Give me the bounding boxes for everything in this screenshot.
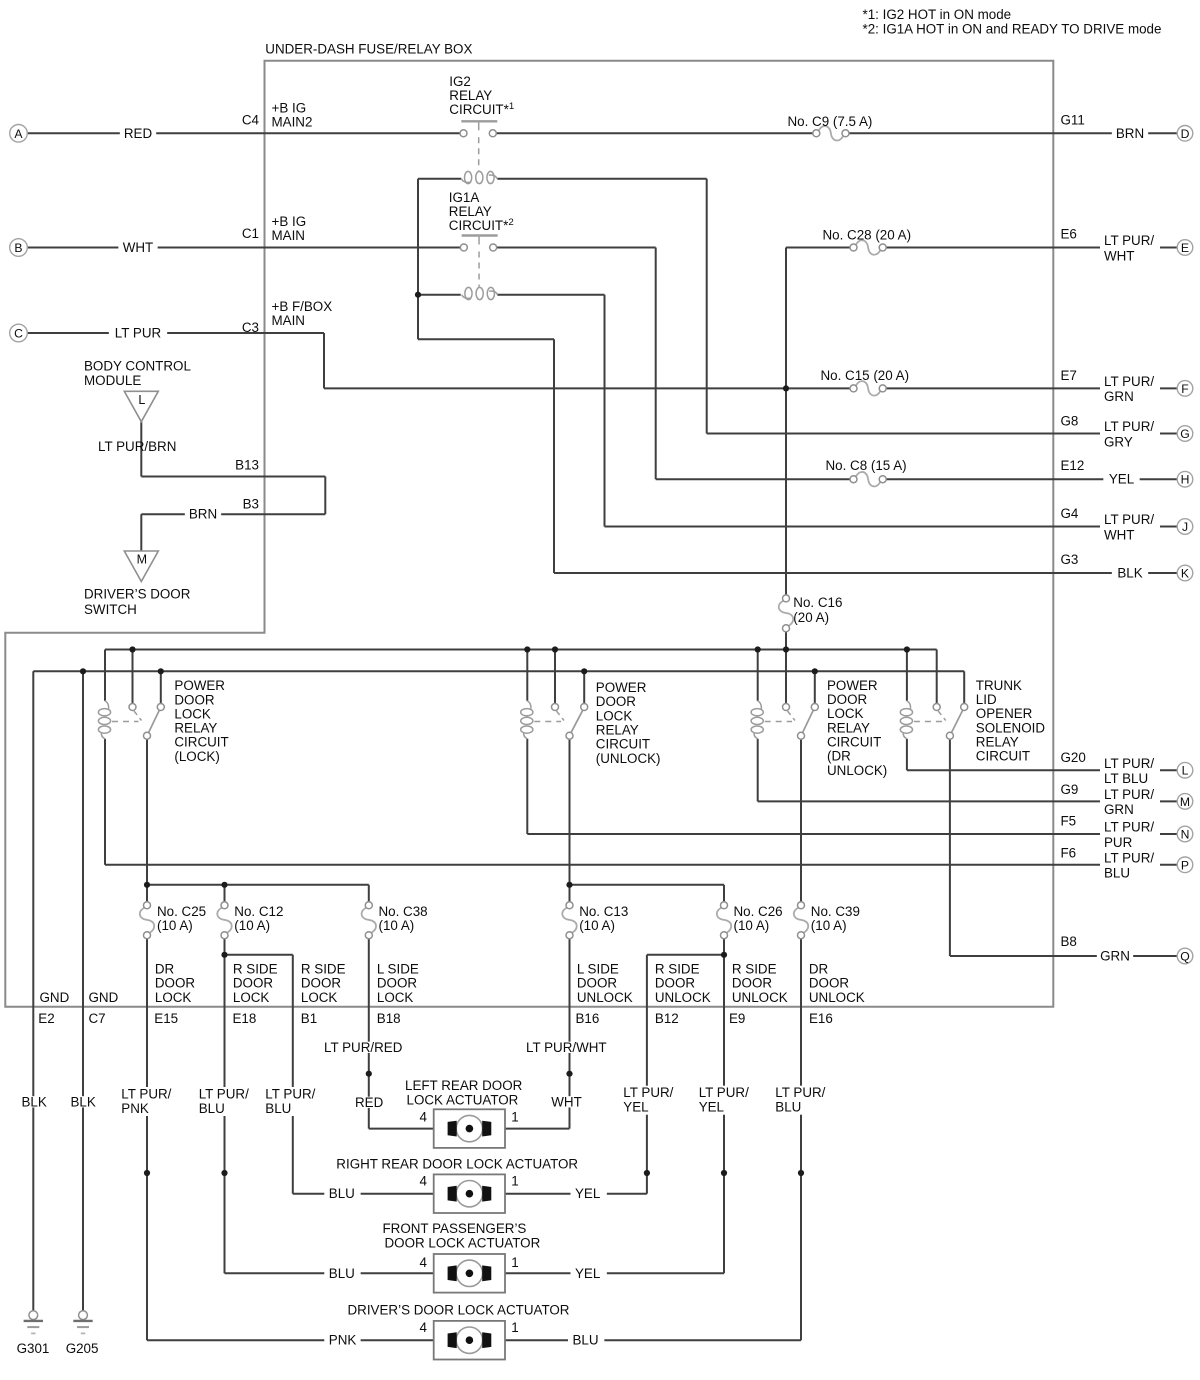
svg-text:BLU: BLU — [199, 1101, 225, 1116]
svg-text:No. C38: No. C38 — [379, 904, 428, 919]
svg-text:LT PUR/: LT PUR/ — [265, 1087, 315, 1102]
svg-text:UNDER-DASH FUSE/RELAY BOX: UNDER-DASH FUSE/RELAY BOX — [265, 42, 472, 57]
svg-text:(10 A): (10 A) — [157, 918, 193, 933]
svg-text:BLU: BLU — [329, 1186, 355, 1201]
svg-text:MAIN2: MAIN2 — [272, 115, 313, 130]
svg-text:TRUNK: TRUNK — [976, 678, 1022, 693]
svg-text:E12: E12 — [1061, 458, 1085, 473]
svg-text:RELAY: RELAY — [827, 720, 870, 735]
svg-text:PUR: PUR — [1104, 835, 1133, 850]
svg-text:C1: C1 — [242, 226, 259, 241]
svg-text:DOOR: DOOR — [155, 976, 196, 991]
svg-text:BLU: BLU — [265, 1101, 291, 1116]
svg-text:DR: DR — [809, 962, 829, 977]
svg-text:LT PUR/: LT PUR/ — [1104, 787, 1154, 802]
svg-text:M: M — [1180, 795, 1190, 809]
svg-text:No. C12: No. C12 — [234, 904, 283, 919]
svg-text:UNLOCK: UNLOCK — [577, 990, 633, 1005]
svg-text:*2: IG1A HOT in ON and READY T: *2: IG1A HOT in ON and READY TO DRIVE mo… — [863, 22, 1162, 37]
svg-text:No. C15 (20 A): No. C15 (20 A) — [821, 368, 910, 383]
svg-text:L SIDE: L SIDE — [377, 962, 419, 977]
svg-text:P: P — [1181, 858, 1189, 872]
svg-text:DOOR: DOOR — [233, 976, 274, 991]
svg-text:CIRCUIT: CIRCUIT — [596, 737, 650, 752]
svg-text:LOCK: LOCK — [827, 706, 864, 721]
svg-text:F6: F6 — [1061, 846, 1077, 861]
svg-text:POWER: POWER — [827, 678, 878, 693]
svg-text:RELAY: RELAY — [449, 204, 492, 219]
svg-text:E6: E6 — [1061, 227, 1077, 242]
svg-text:IG1A: IG1A — [449, 190, 480, 205]
svg-text:4: 4 — [420, 1255, 428, 1270]
svg-text:YEL: YEL — [575, 1186, 600, 1201]
svg-text:LOCK: LOCK — [233, 990, 270, 1005]
svg-text:LOCK: LOCK — [155, 990, 192, 1005]
svg-text:WHT: WHT — [123, 240, 154, 255]
svg-text:RED: RED — [355, 1095, 384, 1110]
svg-text:BRN: BRN — [1116, 126, 1144, 141]
svg-text:(UNLOCK): (UNLOCK) — [596, 751, 661, 766]
svg-text:+B F/BOX: +B F/BOX — [272, 299, 333, 314]
svg-text:POWER: POWER — [596, 680, 647, 695]
svg-text:POWER: POWER — [174, 678, 225, 693]
svg-text:BODY CONTROL: BODY CONTROL — [84, 359, 191, 374]
svg-text:No. C16: No. C16 — [793, 595, 842, 610]
svg-text:MODULE: MODULE — [84, 373, 141, 388]
svg-text:BLK: BLK — [1117, 566, 1142, 581]
svg-text:N: N — [1181, 828, 1190, 842]
svg-text:DOOR LOCK ACTUATOR: DOOR LOCK ACTUATOR — [385, 1235, 541, 1250]
svg-text:(10 A): (10 A) — [379, 918, 415, 933]
svg-text:(10 A): (10 A) — [234, 918, 270, 933]
svg-text:BRN: BRN — [189, 506, 217, 521]
svg-text:DOOR: DOOR — [655, 976, 696, 991]
svg-text:YEL: YEL — [623, 1100, 648, 1115]
svg-text:LEFT REAR DOOR: LEFT REAR DOOR — [405, 1078, 523, 1093]
svg-text:LOCK: LOCK — [377, 990, 414, 1005]
svg-text:BLU: BLU — [573, 1333, 599, 1348]
svg-text:LT PUR/: LT PUR/ — [1104, 374, 1154, 389]
svg-text:LOCK: LOCK — [596, 708, 633, 723]
svg-text:DOOR: DOOR — [301, 976, 342, 991]
svg-text:R SIDE: R SIDE — [732, 962, 777, 977]
svg-text:DOOR: DOOR — [596, 694, 637, 709]
svg-text:G3: G3 — [1061, 552, 1079, 567]
svg-text:WHT: WHT — [551, 1094, 582, 1109]
svg-text:LT BLU: LT BLU — [1104, 771, 1148, 786]
svg-text:E7: E7 — [1061, 368, 1077, 383]
svg-text:UNLOCK: UNLOCK — [655, 990, 711, 1005]
svg-text:DOOR: DOOR — [732, 976, 773, 991]
svg-text:B3: B3 — [243, 497, 259, 512]
svg-text:YEL: YEL — [699, 1100, 724, 1115]
svg-text:GRN: GRN — [1104, 389, 1134, 404]
svg-text:D: D — [1181, 127, 1190, 141]
svg-text:B12: B12 — [655, 1011, 679, 1026]
svg-text:+B IG: +B IG — [272, 101, 307, 116]
svg-text:B13: B13 — [235, 458, 259, 473]
svg-text:Q: Q — [1180, 950, 1189, 964]
svg-text:OPENER: OPENER — [976, 706, 1033, 721]
svg-text:C: C — [14, 327, 23, 341]
svg-text:(10 A): (10 A) — [579, 918, 615, 933]
svg-text:RIGHT REAR DOOR LOCK ACTUATOR: RIGHT REAR DOOR LOCK ACTUATOR — [336, 1156, 578, 1171]
svg-text:E15: E15 — [154, 1011, 178, 1026]
svg-text:4: 4 — [420, 1174, 428, 1189]
svg-text:E9: E9 — [729, 1011, 745, 1026]
svg-text:LOCK ACTUATOR: LOCK ACTUATOR — [407, 1093, 519, 1108]
svg-text:DOOR: DOOR — [577, 976, 618, 991]
svg-text:E16: E16 — [809, 1011, 833, 1026]
svg-text:B1: B1 — [301, 1011, 317, 1026]
svg-text:1: 1 — [511, 1174, 518, 1189]
svg-text:No. C9 (7.5 A): No. C9 (7.5 A) — [788, 114, 873, 129]
svg-text:GRN: GRN — [1104, 802, 1134, 817]
svg-text:J: J — [1182, 520, 1188, 534]
svg-text:4: 4 — [420, 1320, 428, 1335]
svg-text:B16: B16 — [576, 1011, 600, 1026]
svg-text:H: H — [1181, 473, 1190, 487]
svg-text:IG2: IG2 — [449, 74, 471, 89]
svg-text:FRONT PASSENGER’S: FRONT PASSENGER’S — [383, 1221, 527, 1236]
svg-text:LT PUR/: LT PUR/ — [775, 1085, 825, 1100]
svg-text:LT PUR/: LT PUR/ — [1104, 756, 1154, 771]
svg-text:DOOR: DOOR — [174, 692, 215, 707]
svg-text:No. C13: No. C13 — [579, 904, 628, 919]
svg-text:L: L — [1182, 764, 1189, 778]
svg-text:DR: DR — [155, 962, 175, 977]
svg-text:BLU: BLU — [1104, 866, 1130, 881]
svg-text:RELAY: RELAY — [976, 734, 1019, 749]
svg-text:G8: G8 — [1061, 414, 1079, 429]
svg-text:L: L — [138, 393, 145, 407]
svg-text:(DR: (DR — [827, 749, 851, 764]
svg-text:LOCK: LOCK — [174, 706, 211, 721]
svg-text:GRY: GRY — [1104, 434, 1133, 449]
svg-text:MAIN: MAIN — [272, 228, 305, 243]
svg-text:R SIDE: R SIDE — [655, 962, 700, 977]
svg-text:SWITCH: SWITCH — [84, 602, 137, 617]
svg-text:E18: E18 — [233, 1011, 257, 1026]
svg-text:No. C25: No. C25 — [157, 904, 206, 919]
svg-text:CIRCUIT: CIRCUIT — [174, 735, 228, 750]
svg-text:UNLOCK): UNLOCK) — [827, 763, 887, 778]
svg-text:WHT: WHT — [1104, 527, 1135, 542]
svg-text:G: G — [1180, 427, 1189, 441]
svg-text:(20 A): (20 A) — [793, 610, 829, 625]
svg-text:DOOR: DOOR — [809, 976, 850, 991]
svg-text:LT PUR/RED: LT PUR/RED — [324, 1040, 403, 1055]
svg-text:UNLOCK: UNLOCK — [732, 990, 788, 1005]
svg-text:B18: B18 — [377, 1011, 401, 1026]
svg-text:LT PUR/: LT PUR/ — [1104, 820, 1154, 835]
svg-text:G301: G301 — [17, 1341, 50, 1356]
svg-text:F5: F5 — [1061, 813, 1077, 828]
svg-text:RELAY: RELAY — [449, 88, 492, 103]
svg-text:No. C26: No. C26 — [734, 904, 783, 919]
svg-text:LT PUR/: LT PUR/ — [623, 1085, 673, 1100]
svg-text:No. C28 (20 A): No. C28 (20 A) — [823, 228, 912, 243]
svg-text:DOOR: DOOR — [827, 692, 868, 707]
svg-text:GND: GND — [40, 990, 70, 1005]
svg-text:E: E — [1181, 241, 1189, 255]
svg-text:B8: B8 — [1061, 934, 1077, 949]
svg-text:E2: E2 — [38, 1011, 54, 1026]
svg-text:(LOCK): (LOCK) — [174, 749, 219, 764]
svg-text:K: K — [1181, 567, 1189, 581]
svg-text:1: 1 — [511, 1110, 518, 1125]
svg-text:CIRCUIT*1: CIRCUIT*1 — [449, 101, 514, 118]
svg-text:No. C39: No. C39 — [811, 904, 860, 919]
svg-text:4: 4 — [420, 1110, 428, 1125]
svg-text:GND: GND — [89, 990, 119, 1005]
svg-text:F: F — [1181, 382, 1188, 396]
svg-text:RED: RED — [124, 126, 153, 141]
svg-text:RELAY: RELAY — [174, 721, 217, 736]
svg-text:UNLOCK: UNLOCK — [809, 990, 865, 1005]
svg-text:G20: G20 — [1061, 750, 1086, 765]
svg-text:*1: IG2 HOT in ON mode: *1: IG2 HOT in ON mode — [863, 7, 1012, 22]
svg-text:A: A — [14, 127, 23, 141]
svg-text:LID: LID — [976, 692, 997, 707]
svg-text:LOCK: LOCK — [301, 990, 338, 1005]
svg-text:1: 1 — [511, 1255, 518, 1270]
svg-text:LT PUR/: LT PUR/ — [699, 1085, 749, 1100]
svg-text:MAIN: MAIN — [272, 313, 305, 328]
svg-text:LT PUR/BRN: LT PUR/BRN — [98, 439, 176, 454]
svg-text:BLK: BLK — [22, 1094, 47, 1109]
svg-text:+B IG: +B IG — [272, 214, 307, 229]
svg-text:(10 A): (10 A) — [811, 918, 847, 933]
svg-text:R SIDE: R SIDE — [301, 962, 346, 977]
svg-text:(10 A): (10 A) — [734, 918, 770, 933]
svg-text:DRIVER’S DOOR LOCK ACTUATOR: DRIVER’S DOOR LOCK ACTUATOR — [348, 1302, 570, 1317]
svg-text:C7: C7 — [89, 1011, 106, 1026]
svg-text:DRIVER’S DOOR: DRIVER’S DOOR — [84, 587, 191, 602]
svg-text:PNK: PNK — [329, 1333, 357, 1348]
svg-text:PNK: PNK — [121, 1101, 149, 1116]
svg-text:R SIDE: R SIDE — [233, 962, 278, 977]
svg-text:YEL: YEL — [575, 1266, 600, 1281]
svg-text:LT PUR/WHT: LT PUR/WHT — [526, 1040, 607, 1055]
svg-text:LT PUR/: LT PUR/ — [1104, 851, 1154, 866]
svg-text:1: 1 — [511, 1320, 518, 1335]
svg-text:LT PUR: LT PUR — [115, 326, 162, 341]
svg-text:LT PUR/: LT PUR/ — [1104, 419, 1154, 434]
svg-text:G205: G205 — [66, 1341, 99, 1356]
svg-text:LT PUR/: LT PUR/ — [1104, 512, 1154, 527]
svg-text:YEL: YEL — [1109, 472, 1134, 487]
svg-text:BLU: BLU — [775, 1100, 801, 1115]
svg-text:CIRCUIT: CIRCUIT — [976, 749, 1030, 764]
svg-text:C4: C4 — [242, 113, 260, 128]
svg-text:L SIDE: L SIDE — [577, 962, 619, 977]
svg-text:GRN: GRN — [1100, 949, 1130, 964]
svg-text:G4: G4 — [1061, 506, 1079, 521]
svg-text:B: B — [14, 241, 22, 255]
svg-text:C3: C3 — [242, 320, 259, 335]
svg-text:BLU: BLU — [329, 1266, 355, 1281]
svg-text:LT PUR/: LT PUR/ — [121, 1087, 171, 1102]
svg-text:LT PUR/: LT PUR/ — [199, 1087, 249, 1102]
svg-text:BLK: BLK — [71, 1094, 96, 1109]
svg-text:CIRCUIT*2: CIRCUIT*2 — [449, 217, 514, 234]
svg-text:M: M — [137, 553, 147, 567]
svg-text:WHT: WHT — [1104, 248, 1135, 263]
svg-text:SOLENOID: SOLENOID — [976, 720, 1046, 735]
svg-text:DOOR: DOOR — [377, 976, 418, 991]
svg-text:No. C8 (15 A): No. C8 (15 A) — [826, 458, 907, 473]
svg-text:CIRCUIT: CIRCUIT — [827, 735, 881, 750]
svg-text:LT PUR/: LT PUR/ — [1104, 233, 1154, 248]
svg-text:RELAY: RELAY — [596, 722, 639, 737]
svg-text:G9: G9 — [1061, 782, 1079, 797]
svg-text:G11: G11 — [1061, 112, 1085, 127]
